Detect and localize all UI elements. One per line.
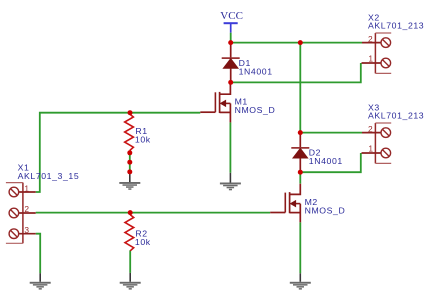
svg-text:1N4001: 1N4001	[239, 66, 273, 76]
wire VCC stem	[230, 33, 232, 43]
svg-text:10k: 10k	[135, 237, 151, 247]
junction node D2 anode / M2 drain	[298, 170, 303, 175]
svg-text:NMOS_D: NMOS_D	[305, 205, 346, 215]
junction node VCC branch	[298, 40, 303, 45]
wire R1 bottom segment 1	[129, 153, 131, 163]
diode D1	[222, 43, 240, 83]
svg-text:1: 1	[368, 144, 373, 154]
ground below M1 source	[220, 173, 241, 191]
svg-text:2: 2	[368, 34, 373, 44]
wire X1 pin 2 to M2 gate	[36, 212, 271, 214]
junction node R1 bottom 2	[127, 160, 132, 165]
junction node D2 cathode / X3 pin 2	[298, 130, 303, 135]
junction node R1 bottom 1	[127, 150, 132, 155]
junction node VCC / D1 cathode	[228, 40, 233, 45]
supply VCC	[220, 10, 243, 33]
ground below R2	[120, 273, 141, 290]
svg-text:10k: 10k	[135, 134, 151, 144]
svg-text:2: 2	[368, 124, 373, 134]
svg-text:1N4001: 1N4001	[309, 156, 343, 166]
connector X1	[6, 183, 36, 244]
junction node R2 top	[128, 210, 133, 215]
wire VCC vertical branch	[299, 43, 301, 133]
ground below R1	[119, 173, 140, 190]
junction node R1 bottom 3	[127, 169, 132, 174]
wire M1 source down	[229, 122, 231, 172]
svg-text:1: 1	[24, 184, 29, 194]
wire D2 cathode to X3 pin 2	[300, 132, 362, 134]
resistor R2	[125, 213, 134, 251]
svg-text:VCC: VCC	[220, 10, 243, 22]
transistor M1	[200, 82, 230, 122]
connector X3	[362, 123, 392, 163]
wire R1 bottom segment 2	[129, 162, 131, 172]
wire X1 pin 1 to M1 gate	[36, 113, 201, 192]
wire D1 anode to X2 pin 1	[231, 63, 361, 82]
svg-text:AKL701_3_15: AKL701_3_15	[18, 171, 80, 181]
svg-text:AKL701_213: AKL701_213	[368, 111, 424, 121]
junction node D1 anode / M1 drain	[228, 80, 233, 85]
wire X1 pin 3 to ground	[36, 234, 41, 274]
ground below X1 pin 3	[30, 273, 51, 289]
svg-text:3: 3	[24, 225, 29, 235]
transistor M2	[270, 184, 300, 223]
resistor R1	[125, 113, 134, 153]
wire VCC top horizontal	[231, 42, 362, 44]
connector X2	[362, 33, 392, 73]
diode D2	[291, 133, 309, 173]
svg-text:AKL701_213: AKL701_213	[368, 20, 424, 30]
wire M2 source down	[299, 222, 301, 273]
svg-text:NMOS_D: NMOS_D	[235, 105, 276, 115]
svg-text:1: 1	[368, 54, 373, 64]
wire D2 anode to X3 pin 1	[300, 153, 361, 172]
junction node R1 top	[128, 110, 133, 115]
wire D2 anode to M2 drain	[299, 173, 301, 184]
wire R2 bottom	[129, 250, 131, 273]
svg-text:2: 2	[24, 204, 29, 214]
ground below M2 source	[290, 273, 311, 289]
